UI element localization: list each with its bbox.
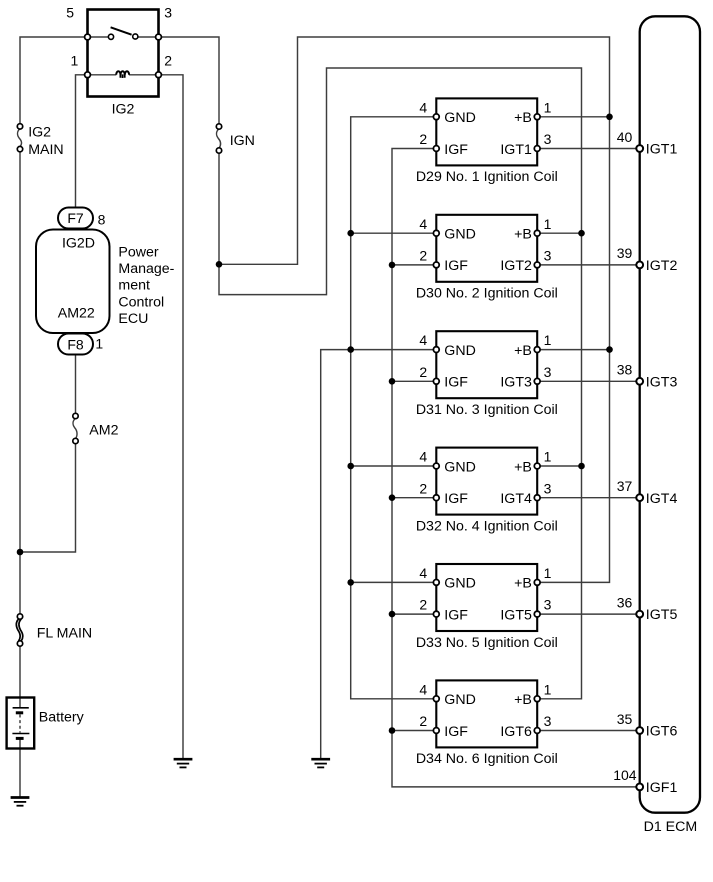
svg-text:+B: +B [514, 576, 532, 592]
svg-text:IGT3: IGT3 [500, 375, 532, 391]
svg-text:GND: GND [444, 459, 476, 475]
svg-text:+B: +B [514, 692, 532, 708]
svg-text:IGF: IGF [444, 724, 468, 740]
svg-text:8: 8 [98, 212, 106, 228]
svg-text:35: 35 [617, 711, 633, 727]
svg-text:1: 1 [544, 449, 552, 465]
svg-text:IGF: IGF [444, 607, 468, 623]
svg-text:IGF: IGF [444, 375, 468, 391]
svg-text:104: 104 [613, 767, 637, 783]
svg-text:1: 1 [544, 99, 552, 115]
svg-text:AM2: AM2 [89, 423, 118, 439]
svg-text:D1 ECM: D1 ECM [644, 819, 698, 835]
svg-text:IGT1: IGT1 [500, 142, 532, 158]
svg-text:+B: +B [514, 227, 532, 243]
svg-text:ECU: ECU [118, 311, 148, 327]
svg-text:IGT5: IGT5 [646, 607, 678, 623]
svg-text:4: 4 [419, 565, 427, 581]
svg-text:1: 1 [95, 336, 103, 352]
svg-text:IGT4: IGT4 [500, 491, 532, 507]
svg-text:40: 40 [617, 129, 633, 145]
svg-text:4: 4 [419, 99, 427, 115]
svg-text:+B: +B [514, 110, 532, 126]
svg-text:D34 No. 6 Ignition Coil: D34 No. 6 Ignition Coil [416, 751, 558, 767]
svg-text:GND: GND [444, 227, 476, 243]
svg-text:3: 3 [544, 364, 552, 380]
svg-text:1: 1 [544, 565, 552, 581]
svg-text:Manage-: Manage- [118, 261, 174, 277]
svg-text:IGT4: IGT4 [646, 491, 678, 507]
svg-text:Power: Power [118, 244, 158, 260]
svg-text:1: 1 [544, 216, 552, 232]
svg-text:37: 37 [617, 478, 633, 494]
svg-text:F8: F8 [67, 336, 84, 352]
svg-text:36: 36 [617, 594, 633, 610]
svg-text:38: 38 [617, 362, 633, 378]
svg-text:D31 No. 3 Ignition Coil: D31 No. 3 Ignition Coil [416, 402, 558, 418]
svg-text:+B: +B [514, 343, 532, 359]
svg-text:1: 1 [544, 681, 552, 697]
svg-text:IGT5: IGT5 [500, 607, 532, 623]
svg-text:39: 39 [617, 245, 633, 261]
svg-text:4: 4 [419, 332, 427, 348]
svg-text:IGF: IGF [444, 258, 468, 274]
svg-text:3: 3 [544, 131, 552, 147]
svg-text:2: 2 [419, 480, 427, 496]
svg-text:IGT2: IGT2 [500, 258, 532, 274]
svg-text:GND: GND [444, 576, 476, 592]
svg-text:D32 No. 4 Ignition Coil: D32 No. 4 Ignition Coil [416, 518, 558, 534]
svg-text:F7: F7 [67, 210, 84, 226]
svg-text:IGT6: IGT6 [646, 724, 678, 740]
svg-text:IGF: IGF [444, 142, 468, 158]
svg-text:4: 4 [419, 449, 427, 465]
svg-text:IG2D: IG2D [62, 236, 95, 252]
svg-text:2: 2 [419, 364, 427, 380]
svg-text:3: 3 [544, 713, 552, 729]
svg-text:IGT1: IGT1 [646, 142, 678, 158]
svg-text:FL MAIN: FL MAIN [37, 625, 92, 641]
svg-text:Control: Control [118, 294, 164, 310]
svg-text:5: 5 [66, 4, 74, 20]
svg-text:4: 4 [419, 681, 427, 697]
svg-text:IGF1: IGF1 [646, 780, 678, 796]
svg-text:GND: GND [444, 110, 476, 126]
svg-text:2: 2 [419, 248, 427, 264]
svg-text:2: 2 [419, 713, 427, 729]
svg-text:ment: ment [118, 278, 150, 294]
svg-text:IGF: IGF [444, 491, 468, 507]
svg-text:3: 3 [164, 4, 172, 20]
svg-text:3: 3 [544, 248, 552, 264]
svg-text:2: 2 [419, 597, 427, 613]
svg-text:GND: GND [444, 343, 476, 359]
svg-text:2: 2 [419, 131, 427, 147]
svg-text:IGN: IGN [230, 133, 255, 149]
svg-text:D29 No. 1 Ignition Coil: D29 No. 1 Ignition Coil [416, 169, 558, 185]
svg-text:IGT6: IGT6 [500, 724, 532, 740]
svg-text:AM22: AM22 [58, 305, 95, 321]
svg-text:+B: +B [514, 459, 532, 475]
svg-text:2: 2 [164, 52, 172, 68]
svg-text:1: 1 [71, 52, 79, 68]
svg-text:3: 3 [544, 597, 552, 613]
svg-text:3: 3 [544, 480, 552, 496]
svg-text:MAIN: MAIN [28, 142, 63, 158]
svg-text:IGT3: IGT3 [646, 374, 678, 390]
svg-text:IG2: IG2 [112, 101, 135, 117]
svg-text:D33 No. 5 Ignition Coil: D33 No. 5 Ignition Coil [416, 635, 558, 651]
svg-text:IGT2: IGT2 [646, 258, 678, 274]
svg-text:1: 1 [544, 332, 552, 348]
svg-text:Battery: Battery [39, 709, 85, 725]
svg-text:D30 No. 2 Ignition Coil: D30 No. 2 Ignition Coil [416, 286, 558, 302]
svg-text:IG2: IG2 [28, 124, 51, 140]
svg-text:4: 4 [419, 216, 427, 232]
svg-text:GND: GND [444, 692, 476, 708]
